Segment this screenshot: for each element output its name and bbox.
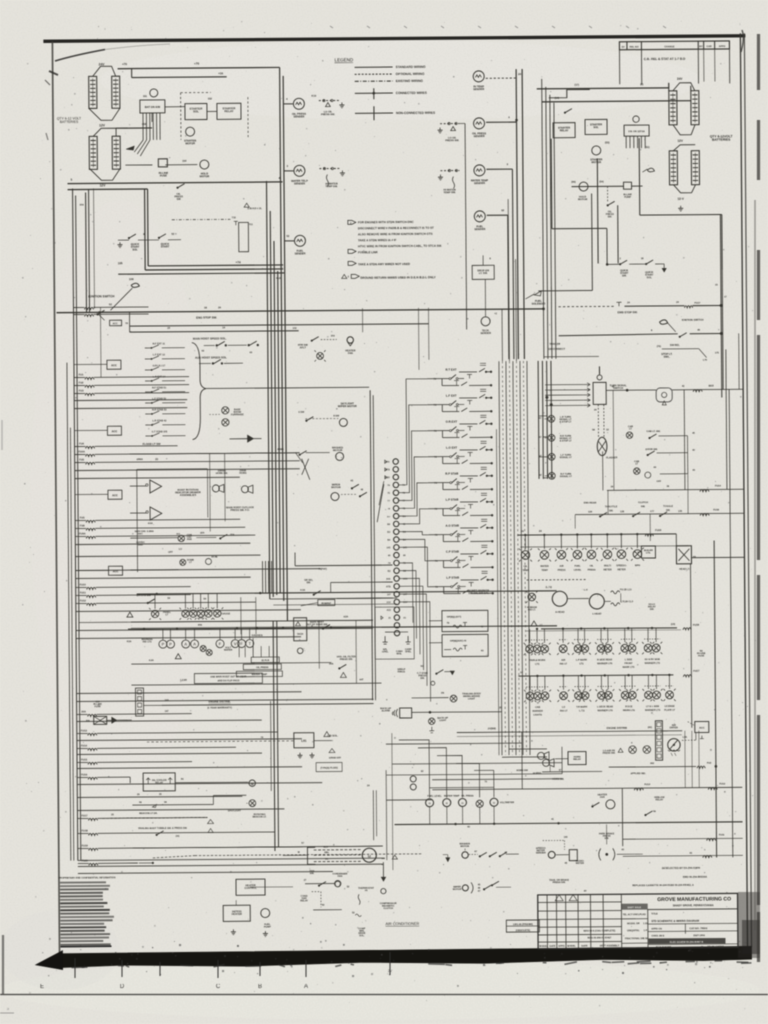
svg-text:FU18: FU18 [82,829,89,832]
svg-text:VOLTMETER: VOLTMETER [500,802,515,804]
svg-text:WARNER LTS: WARNER LTS [597,709,613,712]
svg-text:DATE: DATE [581,945,588,948]
svg-text:ACC: ACC [112,493,118,497]
svg-text:& STOP LT: & STOP LT [560,440,572,442]
svg-text:L.P STAB: L.P STAB [446,498,459,502]
svg-text:TITLE: TITLE [651,913,658,915]
svg-text:(OBSOLETE): (OBSOLETE) [516,930,531,932]
svg-text:FU17: FU17 [695,302,702,305]
svg-text:L DECK REAR: L DECK REAR [597,705,613,708]
svg-text:TEMP SW.: TEMP SW. [443,191,456,194]
svg-text:FU5: FU5 [79,458,84,461]
svg-text:L SIDE: L SIDE [625,659,633,661]
svg-text:6 SW: 6 SW [298,412,305,414]
svg-text:20A: 20A [81,710,86,713]
svg-text:DATE: DATE [549,945,556,948]
svg-text:FAN: FAN [187,538,192,541]
svg-text:MOTOR: MOTOR [333,449,343,452]
svg-text:FAN: FAN [338,875,343,878]
svg-text:WARNER LTS: WARNER LTS [597,662,613,665]
svg-text:(55): (55) [605,141,610,144]
svg-text:T.R MARK: T.R MARK [576,706,587,709]
svg-text:DR HK GM/207: DR HK GM/207 [707,946,724,948]
svg-text:MAIN HOIST SPEED SOL.: MAIN HOIST SPEED SOL. [193,336,227,340]
svg-text:C.P STAB: C.P STAB [446,550,459,554]
svg-text:FU4: FU4 [79,442,84,445]
svg-text:FUSE: FUSE [698,655,705,657]
svg-text:PRESS: PRESS [558,570,566,572]
svg-text:WHL: WHL [397,653,403,655]
svg-text:CHKD JM E: CHKD JM E [651,935,664,937]
svg-text:R.F STAB 51: R.F STAB 51 [152,386,167,389]
svg-text:WATER: WATER [224,649,233,652]
svg-text:32 FLN: 32 FLN [261,660,269,662]
svg-text:CAT NO. 79504: CAT NO. 79504 [689,927,707,930]
svg-text:LIGHT: LIGHT [468,697,476,700]
svg-text:TAKE A STDN WIRES IA # IF: TAKE A STDN WIRES IA # IF [358,238,397,242]
svg-text:LIGHTS: LIGHTS [533,714,542,716]
svg-text:SOL: SOL [193,109,199,113]
svg-text:12V: 12V [677,139,682,143]
svg-text:SENDER: SENDER [295,251,306,255]
svg-text:BEACON LT.: BEACON LT. [253,815,267,818]
svg-text:ACC: ACC [699,727,705,730]
svg-text:GROUND RETURN WIRES USED IN D.: GROUND RETURN WIRES USED IN D.E.N B.D.L … [360,275,436,280]
svg-text:CONNECTED WIRES: CONNECTED WIRES [396,91,427,95]
svg-text:LTS: LTS [535,664,540,666]
svg-text:DOOR SW.: DOOR SW. [646,448,659,451]
svg-text:21V: 21V [387,602,392,604]
svg-text:DISCONNECT: DISCONNECT [548,348,565,351]
svg-text:APPLIED IND.: APPLIED IND. [630,772,646,775]
svg-text:AND DO FLIP PAGS: AND DO FLIP PAGS [217,679,239,682]
svg-text:PUMP: PUMP [624,196,631,199]
svg-text:USE MAIN HOIST OUT OF GEAR: USE MAIN HOIST OUT OF GEAR [210,675,246,678]
svg-text:SOL: SOL [647,276,653,279]
svg-text:FRONT: FRONT [624,663,633,665]
svg-text:ING LT: ING LT [560,710,568,712]
svg-text:2l: 2l [7,1007,10,1011]
svg-text:D.B.H.D # ZL: D.B.H.D # ZL [248,207,263,210]
svg-text:L.O EXT: L.O EXT [446,446,457,450]
svg-text:SENDER: SENDER [293,114,304,118]
svg-text:BY: BY [699,45,703,48]
svg-text:PRESS: PRESS [588,569,596,571]
svg-text:D: D [120,984,125,990]
svg-text:ACC: ACC [111,363,117,367]
svg-text:44T: 44T [359,678,364,681]
svg-text:4.2A: 4.2A [149,659,154,662]
svg-text:A.O STAB: A.O STAB [445,524,459,528]
svg-text:R.R STAB 53: R.R STAB 53 [152,408,167,411]
svg-text:SENDER: SENDER [473,87,484,91]
svg-text:METER: METER [576,863,584,865]
svg-text:SOLENOID: SOLENOID [532,302,546,306]
svg-text:ALARM: ALARM [381,709,389,712]
svg-text:WARNER LTS: WARNER LTS [645,709,661,712]
svg-text:64A: 64A [403,577,408,580]
svg-text:TEMP: TEMP [541,570,548,572]
svg-text:A: A [304,984,308,990]
svg-text:FOR ENGINES WITH STDN SWITCH-D: FOR ENGINES WITH STDN SWITCH-DNC [358,220,414,224]
svg-text:152: 152 [208,97,213,100]
svg-text:MULTI: MULTI [604,565,611,567]
svg-text:ACC: ACC [112,429,118,433]
svg-text:OP(B)(A2V) #4: OP(B)(A2V) #4 [450,639,467,642]
svg-text:OFF: OFF [657,481,662,483]
svg-text:OP(B)(LEV?): OP(B)(LEV?) [447,616,462,619]
svg-text:FLOOD LT SW: FLOOD LT SW [143,442,161,446]
svg-text:LO: LO [179,549,182,551]
svg-text:OIL PRESS: OIL PRESS [256,667,269,669]
svg-text:CLUTCH: CLUTCH [383,908,393,910]
svg-text:FU18: FU18 [693,624,700,627]
svg-text:METER: METER [603,569,611,571]
svg-text:ING LT: ING LT [560,663,568,665]
svg-text:1391-45 (P/N2489): 1391-45 (P/N2489) [513,923,533,926]
svg-text:O.R.EXT: O.R.EXT [446,420,458,424]
svg-text:REL NO: REL NO [630,46,639,49]
svg-text:UNIQUITAL: UNIQUITAL [627,929,640,932]
svg-text:64A: 64A [386,578,391,581]
svg-text:SOL.: SOL. [359,935,365,937]
svg-text:FU9A: FU9A [79,532,86,535]
svg-text:O: O [461,802,463,805]
svg-text:OIL: OIL [590,565,594,567]
svg-text:L.T.S: L.T.S [579,710,585,712]
svg-text:L.R STAB 42: L.R STAB 42 [152,419,167,422]
svg-text:1 23: 1 23 [643,923,648,925]
svg-text:10A: 10A [79,203,84,206]
svg-text:WIPER MOTOR: WIPER MOTOR [338,404,357,408]
svg-text:PRESS SW.: PRESS SW. [553,882,566,884]
svg-text:O: O [429,802,431,805]
svg-text:22A: 22A [230,533,235,536]
svg-text:FU13: FU13 [81,729,88,732]
svg-text:102: 102 [293,327,298,330]
svg-text:SY: SY [622,46,626,49]
svg-text:12-V: 12-V [677,197,683,201]
svg-text:HTVC WIRE IN FROM IGNITION SW: HTVC WIRE IN FROM IGNITION SWITCH-CABL, … [358,244,442,249]
svg-text:1 50: 1 50 [643,938,648,940]
svg-text:BATTERIES: BATTERIES [60,120,79,124]
svg-text:TRIPLE WORK: TRIPLE WORK [529,660,546,662]
svg-text:+14: +14 [276,276,281,280]
svg-text:AIR CONDITIONER: AIR CONDITIONER [385,922,419,926]
svg-text:DIR SW, DIR DAL: DIR SW, DIR DAL [468,592,489,595]
svg-text:V: V [234,641,237,646]
svg-text:DESELECTED BY EA-294-01806: DESELECTED BY EA-294-01806 [662,867,701,870]
svg-text:SENDER: SENDER [294,181,305,185]
svg-text:NON-CONNECTED WIRES: NON-CONNECTED WIRES [396,111,435,115]
svg-text:FLASHER: FLASHER [606,456,618,459]
svg-text:MOTOR: MOTOR [200,174,210,178]
svg-text:109: 109 [129,277,134,281]
svg-text:L.O EXT 14: L.O EXT 14 [153,375,166,378]
svg-text:SIGNAL LT: SIGNAL LT [560,456,573,459]
svg-text:ABD: ABD [385,476,390,479]
svg-text:ASSEMBLIES: ASSEMBLIES [180,494,197,497]
svg-text:HORN SW.: HORN SW. [216,472,228,475]
svg-text:ROMPAT: ROMPAT [321,602,331,605]
svg-text:(8): (8) [640,83,643,86]
svg-text:LTS.: LTS. [646,552,651,554]
svg-text:MPH: MPH [635,565,641,567]
svg-text:TEMP: TEMP [522,570,529,572]
svg-text:MOTOR: MOTOR [185,141,195,145]
svg-text:FUEL LEVEL: FUEL LEVEL [427,796,442,798]
svg-text:BATTERIES: BATTERIES [712,138,731,142]
svg-text:THROTTLE: THROTTLE [605,506,618,508]
svg-text:SENDER: SENDER [480,332,491,335]
svg-text:P: P [162,642,165,647]
svg-text:OIL PRESS: OIL PRESS [461,795,474,797]
svg-text:FU8: FU8 [80,524,85,527]
svg-text:LEGEND: LEGEND [335,57,354,62]
svg-text:CHANGE: CHANGE [664,45,675,48]
svg-text:2V: 2V [388,969,393,973]
svg-text:M: M [298,852,300,854]
svg-text:(51): (51) [645,146,650,149]
svg-text:1 P: 1 P [644,930,648,932]
svg-text:2N: 2N [441,693,444,695]
svg-text:2.2MA: 2.2MA [147,530,154,533]
svg-text:154: 154 [182,160,187,163]
svg-text:40MA: 40MA [136,458,143,461]
svg-text:RELAY: RELAY [560,128,569,132]
svg-text:ENGINE DISTRIB: ENGINE DISTRIB [607,727,628,730]
svg-text:O.R.I.K.I 17: O.R.I.K.I 17 [153,364,166,367]
svg-text:FU15: FU15 [81,758,88,761]
svg-text:40A: 40A [199,617,204,620]
svg-text:TRAILING BODY TOBBLE SW. & PRE: TRAILING BODY TOBBLE SW. & PRESS SW. [138,827,188,830]
svg-text:L.O: L.O [584,590,588,592]
svg-text:SW.: SW. [608,215,613,218]
svg-text:LIGHT: LIGHT [439,720,447,722]
svg-text:C: C [216,984,221,990]
svg-text:FU12: FU12 [719,782,726,785]
svg-text:F.B. ON 12/73A: F.B. ON 12/73A [628,130,645,133]
svg-text:TOGGLE: TOGGLE [663,506,673,508]
svg-text:SIGNAL LT: SIGNAL LT [560,475,573,478]
svg-text:SW.: SW. [306,581,311,584]
svg-text:WARNER LTS: WARNER LTS [645,662,661,665]
svg-text:(55): (55) [571,181,575,184]
svg-text:SHEL: SHEL [405,651,412,653]
svg-text:SHADY GROVE, PENNSYLVANIA: SHADY GROVE, PENNSYLVANIA [673,903,714,907]
svg-text:HORN SW: HORN SW [516,769,528,772]
svg-text:WATER: WATER [540,565,549,568]
svg-text:4.5A: 4.5A [148,522,153,525]
svg-text:FU13: FU13 [644,783,651,786]
svg-text:APPD CN: APPD CN [651,927,662,930]
svg-text:SENDER: SENDER [536,852,546,854]
svg-text:ENG STOP SW.: ENG STOP SW. [196,315,217,319]
svg-text:MOTOR: MOTOR [453,889,462,891]
svg-text:SW.: SW. [650,609,655,611]
svg-text:FUEL: FUEL [574,566,581,568]
svg-text:FU18: FU18 [713,509,719,511]
svg-text:(54): (54) [599,180,603,183]
svg-text:OFF: OFF [168,552,173,554]
svg-text:EMB STOP SW.: EMB STOP SW. [617,310,637,314]
svg-text:FUSE: FUSE [160,174,167,178]
svg-text:C.T STAB 105: C.T STAB 105 [152,430,168,433]
svg-text:SHIFT SOLE: SHIFT SOLE [627,907,641,909]
svg-text:L.P MARK: L.P MARK [576,659,588,662]
svg-text:FU14: FU14 [81,744,88,747]
svg-text:(40): (40) [648,726,652,729]
svg-text:DBL: DBL [324,852,329,854]
svg-text:TACH: TACH [297,633,304,636]
svg-text:OPEL: OPEL [382,651,389,653]
svg-text:DWT-1904: DWT-1904 [693,934,705,937]
svg-text:ACC: ACC [113,322,118,325]
svg-text:R DCE: R DCE [625,706,633,708]
svg-text:PRESS SW. F.O.: PRESS SW. F.O. [230,509,249,512]
svg-text:FUSIBLE LINK: FUSIBLE LINK [358,250,379,254]
svg-text:DISCONNECT WIRE # PADB.B & REC: DISCONNECT WIRE # PADB.B & RECONNECT IS … [358,226,434,231]
svg-text:L-HEAD: L-HEAD [592,612,601,615]
svg-text:R.T EXT: R.T EXT [445,368,456,372]
svg-text:P: P [169,642,172,647]
svg-text:CAB LT. SW.: CAB LT. SW. [646,430,660,433]
svg-text:HEAD LT.: HEAD LT. [679,568,690,571]
svg-text:SWITCH: SWITCH [613,387,623,390]
svg-text:ELEC SCHEM 09-294-00467 B: ELEC SCHEM 09-294-00467 B [670,941,704,944]
svg-text:+70: +70 [194,62,199,66]
svg-text:R.F EXT 11: R.F EXT 11 [153,342,166,345]
svg-text:TRAILER: TRAILER [549,343,560,346]
svg-text:MOTOR: MOTOR [578,198,588,201]
svg-text:SWL.: SWL. [664,355,671,359]
svg-text:12V: 12V [99,123,106,127]
svg-text:FU17: FU17 [693,670,700,673]
svg-text:MOTOR: MOTOR [591,160,601,164]
svg-text:NC: NC [421,666,425,668]
svg-text:BAT ON A/M: BAT ON A/M [145,105,161,109]
svg-text:GRAB OFF: GRAB OFF [329,756,342,759]
svg-text:L.P STAB: L.P STAB [446,576,459,580]
svg-text:RELAY: RELAY [300,899,308,902]
svg-text:MOTOR: MOTOR [460,845,469,848]
svg-text:WARN LTS: WARN LTS [623,709,635,712]
svg-text:FU1: FU1 [79,373,84,376]
svg-text:OPTIONAL WIRING: OPTIONAL WIRING [396,72,425,76]
svg-text:IGNITION SWITCH: IGNITION SWITCH [682,319,704,322]
svg-text:SENDER: SENDER [474,134,485,138]
svg-text:(L.73): (L.73) [546,587,552,589]
svg-text:STANDARD WIRING: STANDARD WIRING [396,65,427,69]
svg-text:GAUGE: GAUGE [222,612,231,615]
svg-text:RINGS: RINGS [398,671,406,673]
svg-text:PRESS SW.: PRESS SW. [603,753,616,755]
svg-text:TEL ACT UNCLPLKD: TEL ACT UNCLPLKD [623,913,646,916]
svg-text:FUR/RAISE: FUR/RAISE [231,413,244,416]
svg-text:AIR: AIR [560,565,564,568]
svg-text:PRESS SW.: PRESS SW. [445,139,459,142]
svg-text:CLUTCH: CLUTCH [638,501,648,504]
svg-text:22A: 22A [200,532,205,535]
svg-text:K13: K13 [312,95,317,98]
svg-text:L.F EXT 12: L.F EXT 12 [153,353,166,356]
svg-text:SV & RV SIDE: SV & RV SIDE [645,659,661,661]
svg-text:STD SCHEMATIC & WIRING DIAGRAM: STD SCHEMATIC & WIRING DIAGRAM [651,919,700,923]
svg-text:ATB: ATB [386,585,391,588]
svg-text:FU3: FU3 [79,389,84,392]
svg-text:FU11: FU11 [719,834,725,836]
svg-text:FU10: FU10 [80,583,87,586]
svg-text:SW REL: SW REL [670,344,680,347]
svg-text:MODUL DR: MODUL DR [627,923,640,925]
svg-text:SW.: SW. [420,677,425,680]
svg-text:BEACON LT DA.: BEACON LT DA. [139,812,158,815]
svg-text:24V: 24V [677,77,682,81]
svg-text:SENDER: SENDER [474,227,485,231]
svg-text:LTS: LTS [579,663,584,665]
svg-text:R SIDE REAR: R SIDE REAR [597,658,612,661]
svg-text:(1 YEAR WARRANTY): (1 YEAR WARRANTY) [207,706,232,709]
svg-text:IND LTS: IND LTS [143,641,152,643]
svg-text:SW.: SW. [622,274,627,277]
svg-text:SCALE NONE: SCALE NONE [656,946,672,949]
svg-text:R.P STAB: R.P STAB [445,472,458,476]
svg-text:(T-PA(S) FLUID): (T-PA(S) FLUID) [320,766,338,769]
svg-text:105: 105 [118,261,123,265]
svg-text:FRACTIONAL DR: FRACTIONAL DR [625,937,644,940]
svg-text:START: START [161,245,170,249]
svg-text:8 SW: 8 SW [333,415,340,417]
svg-text:2V(BM): 2V(BM) [488,728,496,730]
svg-text:PROPRIETARY AND CONFIDENTIAL I: PROPRIETARY AND CONFIDENTIAL INFORMATION [58,876,115,879]
svg-text:RELAY: RELAY [224,109,233,113]
svg-text:+16: +16 [218,71,223,75]
svg-text:APPD: APPD [719,45,726,48]
svg-text:REPLACES CASSETTE 09-294-00289: REPLACES CASSETTE 09-294-00289 09-294-90… [632,884,694,887]
svg-text:& STOP LT: & STOP LT [559,421,571,423]
svg-text:TEMP SW.: TEMP SW. [325,185,338,188]
svg-text:K2A: K2A [127,640,132,643]
svg-text:24: 24 [518,72,522,76]
svg-text:RELAY: RELAY [656,798,664,801]
svg-text:OIL: OIL [524,566,528,568]
svg-text:SOL: SOL [132,247,138,251]
svg-text:C.B. REL & STAT AT 1-7 B.D: C.B. REL & STAT AT 1-7 B.D [644,57,686,61]
svg-text:L75: L75 [703,360,708,362]
svg-text:AFLT: AFLT [300,346,307,349]
svg-text:WAS 02-A (CHG COMPLETE): WAS 02-A (CHG COMPLETE) [583,929,615,932]
svg-text:HEATER: HEATER [232,913,242,916]
svg-text:EXISTING WIRING: EXISTING WIRING [396,79,424,83]
svg-text:L.F EXT: L.F EXT [446,394,457,398]
svg-text:GROVE MANUFACTURING CO: GROVE MANUFACTURING CO [657,896,731,903]
svg-text:HORN: HORN [239,472,246,475]
svg-text:+70: +70 [122,62,127,66]
svg-text:FU12: FU12 [80,599,87,602]
svg-text:MARKER: MARKER [533,710,544,713]
svg-text:FU2: FU2 [79,381,84,384]
svg-text:FU2: FU2 [707,763,712,765]
svg-text:WAS 05-294-01-00467: WAS 05-294-01-00467 [588,936,613,939]
svg-text:LT & L SIDE: LT & L SIDE [646,706,660,708]
svg-text:OUT OF GEAR SW.: OUT OF GEAR SW. [306,623,328,626]
svg-text:AUX HOIST SPEED SOL: AUX HOIST SPEED SOL [195,355,227,359]
svg-text:SW.: SW. [666,510,671,512]
svg-text:PRESS SW.: PRESS SW. [340,658,353,661]
svg-text:SW.: SW. [310,873,315,875]
svg-text:HO: HO [177,534,181,536]
svg-text:FU16: FU16 [81,773,88,776]
